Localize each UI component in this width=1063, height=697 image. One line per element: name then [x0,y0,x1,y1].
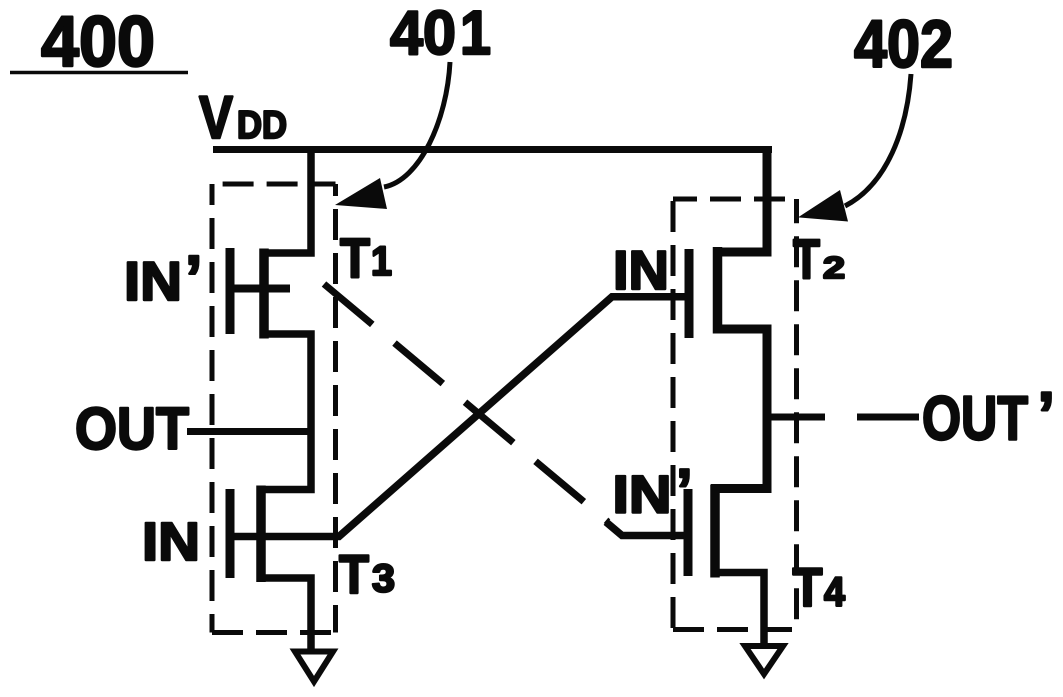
dashed box 401 left edge [210,184,215,633]
wire IN' elbow to T4 gate [606,522,689,536]
label VDD [199,84,287,151]
svg-text:1: 1 [460,0,491,68]
svg-text:1: 1 [371,238,392,284]
ground symbol right [745,646,783,674]
dashed box 402 left edge [671,199,676,630]
dashed box 401 right edge [333,184,338,633]
label T2 [793,227,845,290]
transistor T3 gate bar [226,489,235,578]
svg-text:’: ’ [1038,380,1056,450]
svg-text:T: T [339,543,369,605]
wire T1 source to T3 drain [257,334,311,490]
ground symbol left [295,652,333,682]
label IN' of T1 [124,244,203,314]
wire T3 source to ground [257,578,311,649]
VDD rail wire [213,146,772,153]
svg-text:’: ’ [185,244,203,314]
label IN' of T4 [613,457,693,525]
transistor T4 channel bar [710,485,720,578]
transistor T1 channel bar [259,249,269,339]
wire IN' cross-coupling dashed (T1 to T4) [324,284,608,522]
transistor T1 gate bar [226,248,235,334]
underline of 400 [10,71,188,75]
svg-text:4: 4 [824,569,845,615]
svg-text:V: V [199,84,233,151]
wire IN cross-coupling (T3 gate to T2 gate) [226,297,689,537]
dashed box 401 bottom edge [212,630,336,635]
svg-text:IN: IN [613,466,672,525]
wire T4 source to ground [711,573,764,645]
transistor T2 gate bar [685,249,694,338]
arrow 401 curve [384,62,450,187]
svg-text:400: 400 [41,3,155,82]
svg-text:402: 402 [854,7,953,82]
svg-text:IN: IN [142,512,200,572]
svg-text:40: 40 [390,0,456,68]
wire VDD to T2 drain [713,150,767,253]
transistor T2 channel bar [713,247,723,334]
label T3 [339,543,395,605]
dashed box 401 top edge [212,182,336,187]
arrow 401 head [335,178,387,209]
dashed box 402 top edge [673,197,797,202]
svg-text:T: T [793,227,820,290]
svg-text:T: T [340,227,370,289]
wire OUT' lead segment 2 [857,414,919,421]
svg-text:OUT: OUT [75,395,189,462]
label T4 [793,556,846,618]
transistor T3 channel bar [256,486,266,583]
dashed box 402 bottom edge [673,627,797,632]
wire OUT' lead segment 1 [767,414,825,421]
wire T2 source to T4 drain [711,329,767,489]
svg-text:3: 3 [372,558,395,601]
svg-text:IN: IN [124,250,182,312]
arrow 402 curve [845,74,911,206]
dashed box 402 right edge [794,199,799,630]
transistor T4 gate bar [684,489,693,576]
label OUT' [922,380,1055,454]
wire VDD to T1 drain [260,150,311,254]
svg-text:IN: IN [613,239,669,301]
svg-text:DD: DD [237,104,287,147]
svg-text:2: 2 [823,250,845,285]
wire OUT lead [187,428,311,435]
svg-text:OUT: OUT [922,385,1028,454]
arrow 402 head [798,190,848,222]
svg-text:T: T [793,556,823,618]
svg-text:’: ’ [676,457,693,524]
label T1 [340,227,392,289]
transistor T1 gate stub [226,285,290,293]
